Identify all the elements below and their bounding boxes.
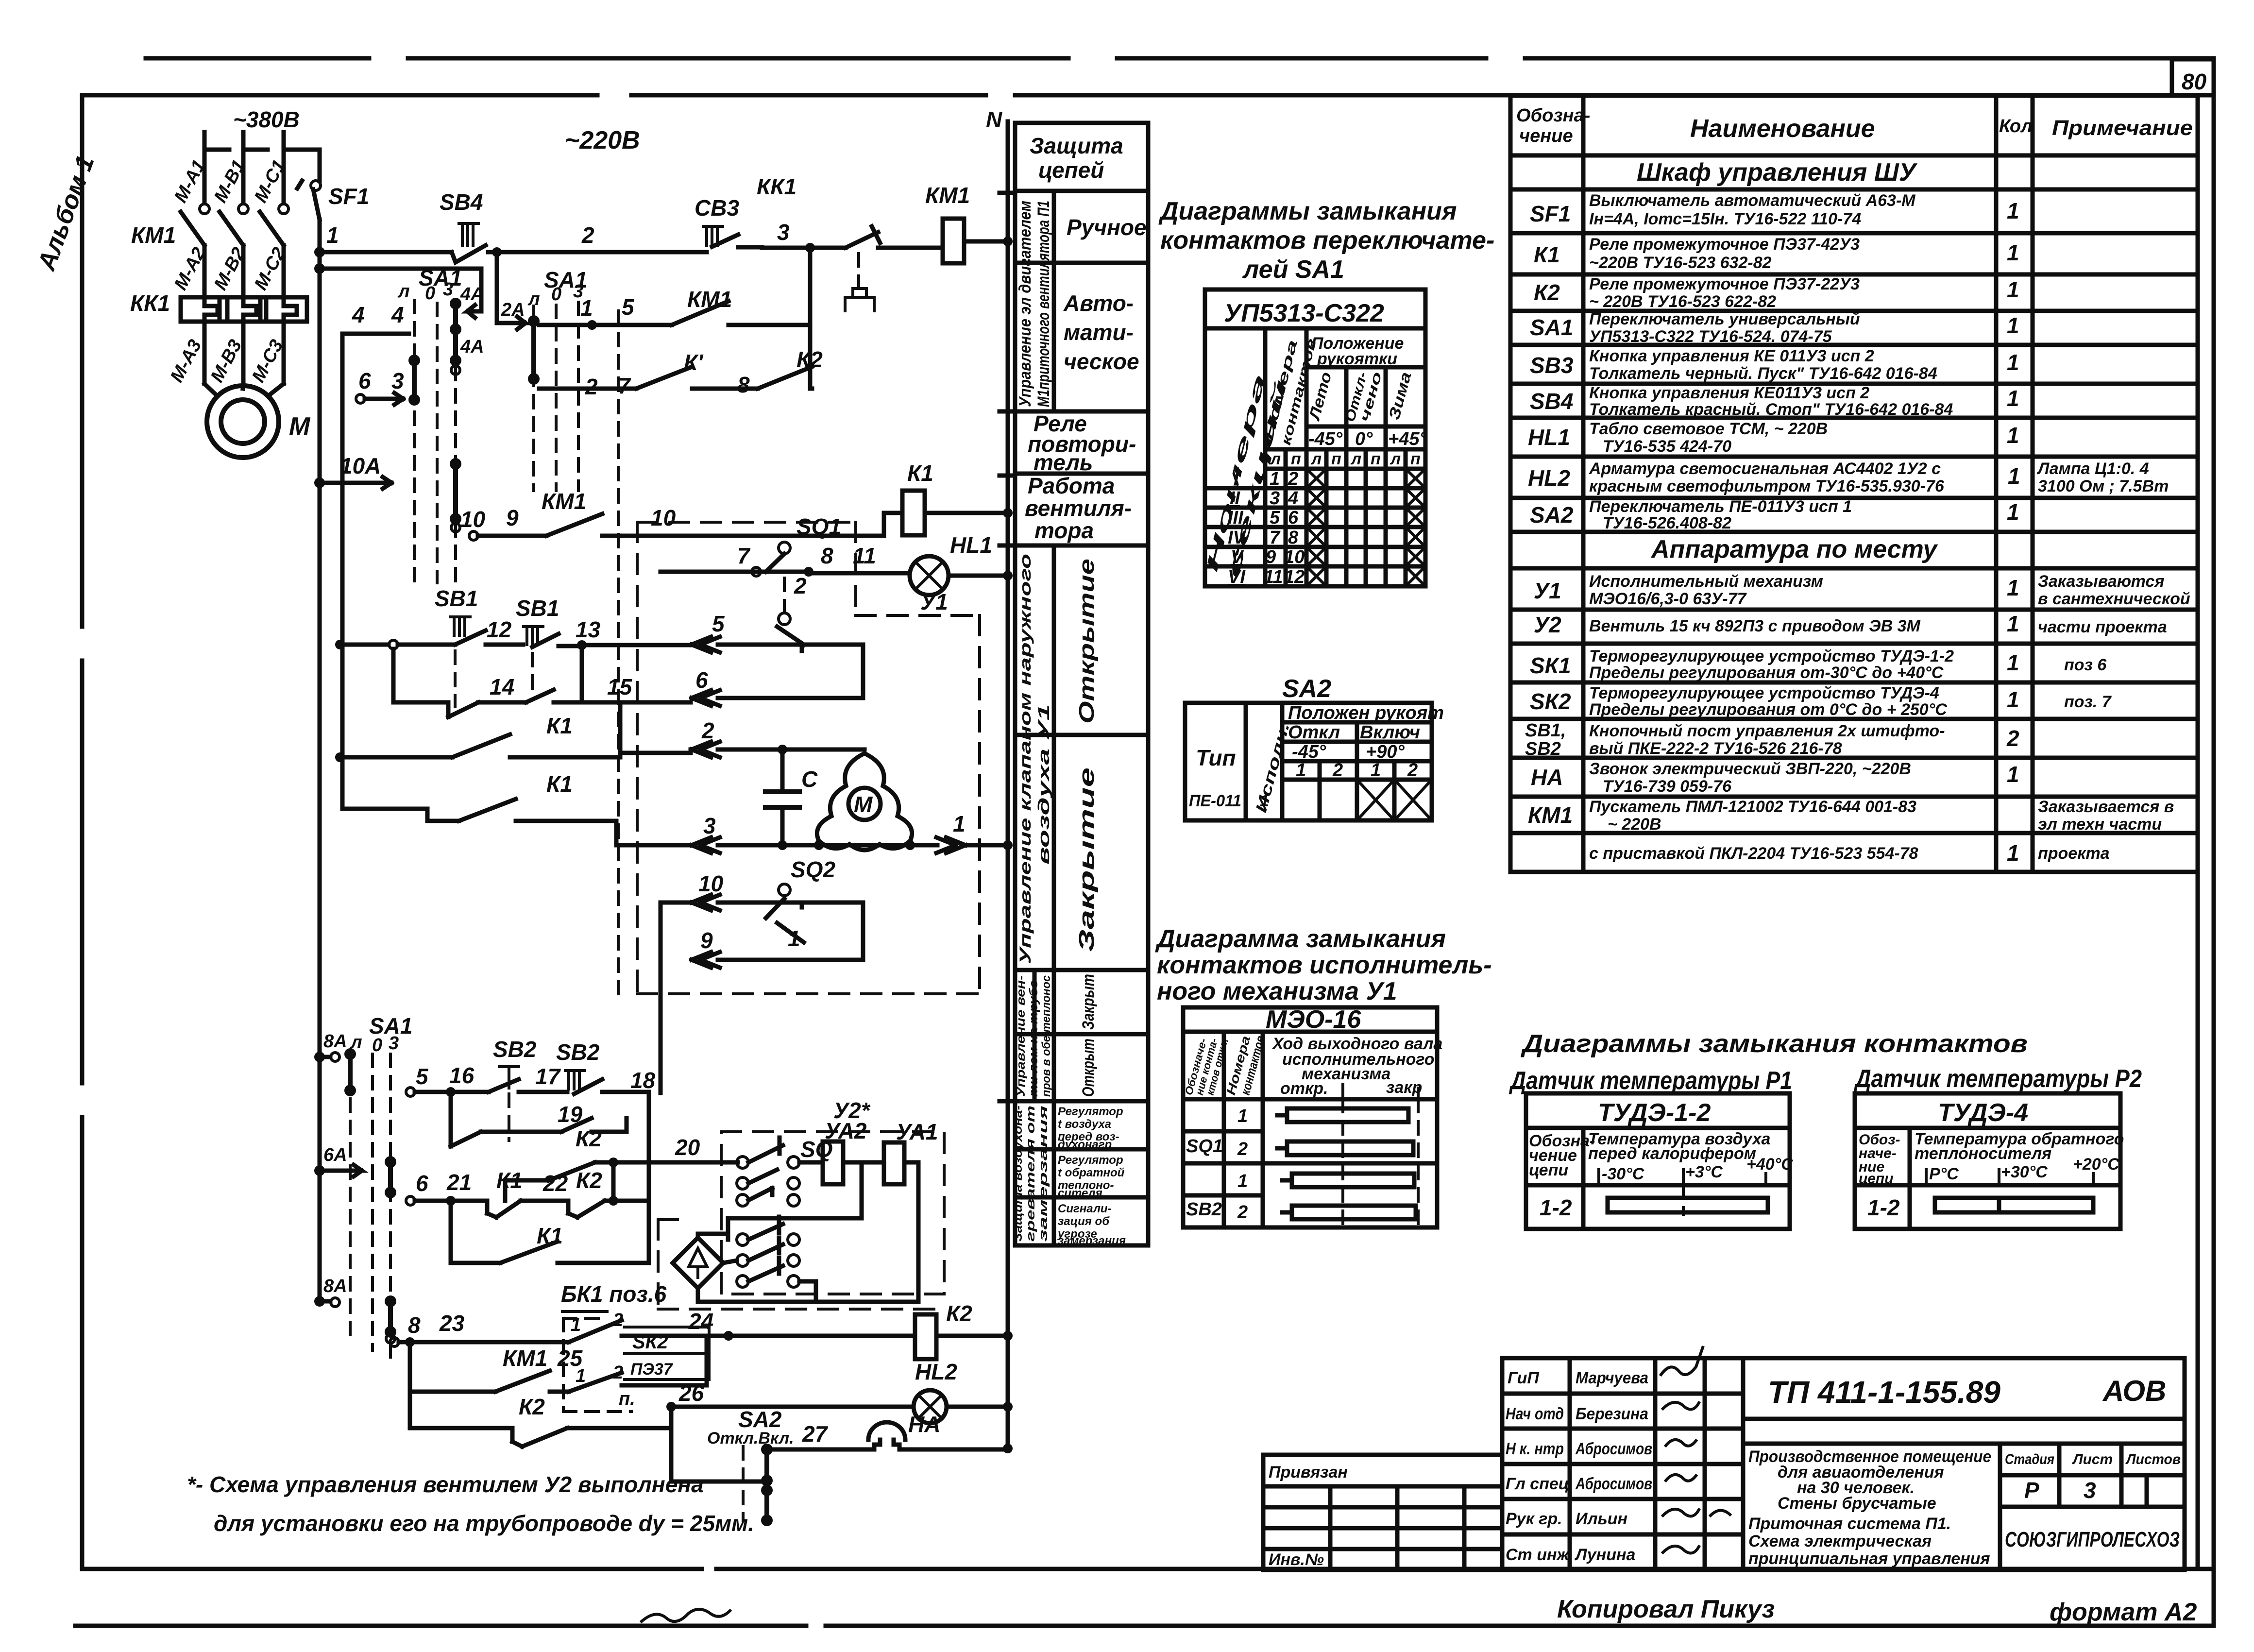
parts row SK2 — [1530, 684, 2112, 719]
svg-text:красным светофильтром ТУ16-535: красным светофильтром ТУ16-535.930-76 — [1589, 477, 1945, 495]
switch SA2 branch — [671, 1407, 829, 1526]
wire row 16 SB2 — [406, 1063, 541, 1097]
svg-text:К1: К1 — [496, 1168, 523, 1193]
svg-text:л: л — [1350, 450, 1361, 468]
svg-text:Пускатель ПМЛ-121002 ТУ16-644: Пускатель ПМЛ-121002 ТУ16-644 001-83 — [1589, 798, 1916, 816]
svg-text:ТУ16-535 424-70: ТУ16-535 424-70 — [1603, 437, 1731, 456]
svg-text:л: л — [1310, 450, 1322, 468]
svg-text:1: 1 — [953, 811, 966, 836]
svg-text:замерзания: замерзания — [1058, 1234, 1126, 1247]
svg-text:Iн=4А, Iотс=15Iн. ТУ16-522 1: Iн=4А, Iотс=15Iн. ТУ16-522 110-74 — [1589, 210, 1861, 228]
node ~380V label — [233, 107, 300, 132]
svg-text:2: 2 — [1407, 760, 1418, 781]
thermal relay KK1 heaters — [130, 290, 307, 322]
switch SA1 group3 labels — [350, 1013, 412, 1056]
svg-text:10: 10 — [651, 505, 676, 530]
svg-text:-45°: -45° — [1292, 742, 1326, 762]
parts row HA — [1531, 760, 2019, 796]
svg-text:Закрыт: Закрыт — [1079, 974, 1098, 1030]
svg-text:15: 15 — [607, 674, 633, 699]
parts row SB4 — [1530, 384, 2019, 419]
dashed lower return boundary — [658, 1220, 944, 1309]
switch SA1 group1 dashed columns — [414, 300, 456, 583]
svg-text:Гл спец: Гл спец — [1506, 1475, 1569, 1493]
svg-text:откр.: откр. — [1280, 1079, 1328, 1098]
svg-text:Табло световое ТСМ, ~ 220В: Табло световое ТСМ, ~ 220В — [1589, 420, 1828, 438]
svg-text:1: 1 — [2007, 611, 2019, 636]
svg-text:SB4: SB4 — [440, 189, 483, 215]
svg-text:23: 23 — [439, 1311, 465, 1336]
valve U2 dashed box — [721, 1098, 944, 1294]
svg-text:3: 3 — [391, 368, 404, 393]
svg-text:HL2: HL2 — [1528, 465, 1570, 491]
svg-text:Ст инж: Ст инж — [1506, 1546, 1570, 1564]
svg-text:3: 3 — [2084, 1478, 2096, 1503]
svg-text:лей SА1: лей SА1 — [1242, 255, 1344, 284]
svg-text:SВ1,: SВ1, — [1525, 720, 1566, 741]
svg-text:КК1: КК1 — [130, 290, 170, 316]
svg-text:6: 6 — [416, 1171, 428, 1196]
capacitor C — [765, 745, 818, 850]
actuator U1 dashed box — [637, 522, 980, 994]
svg-text:Лунина: Лунина — [1574, 1546, 1635, 1564]
svg-text:ТП 411-1-155.89: ТП 411-1-155.89 — [1768, 1375, 2000, 1410]
svg-text:22: 22 — [542, 1171, 568, 1196]
table UP5313 X marks — [1306, 469, 1425, 586]
svg-text:Датчик температуры Р1: Датчик температуры Р1 — [1509, 1067, 1792, 1095]
contactor coil KM1 — [915, 183, 1008, 263]
sheet number box 80 — [2172, 59, 2214, 95]
parts row U1 — [1534, 572, 2190, 608]
svg-text:л: л — [397, 281, 410, 302]
parts row SF1 — [1530, 191, 2019, 228]
svg-text:Р: Р — [2024, 1478, 2039, 1503]
svg-text:12: 12 — [1284, 567, 1305, 587]
svg-text:1-2: 1-2 — [1867, 1195, 1900, 1220]
switch SA1 group1 labels — [397, 265, 462, 304]
svg-text:Пределы регулирования от-30°С: Пределы регулирования от-30°С до +40°С — [1589, 664, 1944, 682]
svg-text:цепи: цепи — [1859, 1171, 1894, 1187]
breaker SF1 — [295, 150, 369, 252]
svg-text:Нач отд: Нач отд — [1506, 1405, 1564, 1423]
svg-text:5: 5 — [712, 611, 725, 636]
bottom caption copied — [642, 1595, 1775, 1623]
svg-text:Терморегулирующее устройство Т: Терморегулирующее устройство ТУДЭ-1-2 — [1589, 647, 1954, 665]
svg-text:~380В: ~380В — [233, 107, 300, 132]
svg-text:п: п — [1410, 450, 1421, 468]
svg-text:мати-: мати- — [1064, 320, 1134, 345]
svg-text:14: 14 — [490, 674, 514, 699]
bus N connection ticks — [1000, 193, 1015, 1101]
button SB2 first — [493, 1037, 537, 1088]
svg-text:КМ1: КМ1 — [925, 183, 970, 208]
svg-text:1: 1 — [1237, 1171, 1248, 1192]
svg-text:2: 2 — [1237, 1139, 1248, 1159]
svg-text:ТУ16-526.408-82: ТУ16-526.408-82 — [1603, 514, 1731, 532]
svg-text:19: 19 — [558, 1102, 583, 1127]
svg-text:Кнопка управления КЕ011У3 и: Кнопка управления КЕ011У3 исп 2 — [1589, 384, 1869, 402]
table TUDE-1-2 — [1526, 1093, 1793, 1229]
svg-text:л: л — [1390, 450, 1401, 468]
svg-text:SQ1: SQ1 — [797, 514, 841, 539]
svg-text:Лампа Ц1:0. 4: Лампа Ц1:0. 4 — [2036, 460, 2149, 478]
switch SA1 group3 dashed columns — [350, 1054, 390, 1359]
svg-text:Защита: Защита — [1030, 133, 1123, 158]
svg-text:10: 10 — [460, 507, 486, 532]
wire row B — [320, 269, 481, 311]
wire 4 link to SA1 — [342, 302, 409, 334]
svg-text:8: 8 — [1288, 528, 1299, 548]
solenoid coil UA2 — [799, 1118, 867, 1184]
svg-text:6А: 6А — [323, 1145, 347, 1165]
svg-text:К1: К1 — [546, 713, 573, 738]
svg-text:НА: НА — [908, 1412, 940, 1437]
svg-text:2: 2 — [1237, 1202, 1248, 1223]
svg-text:Защита воздухона-: Защита воздухона- — [1012, 1106, 1025, 1242]
svg-text:1: 1 — [1270, 469, 1280, 489]
svg-text:Привязан: Привязан — [1269, 1463, 1348, 1482]
svg-text:Кнопка управления КЕ 011У3: Кнопка управления КЕ 011У3 исп 2 — [1589, 347, 1874, 365]
svg-text:SF1: SF1 — [1530, 201, 1571, 226]
svg-text:SQ1: SQ1 — [1186, 1136, 1223, 1157]
svg-text:К2: К2 — [576, 1168, 602, 1193]
svg-text:4: 4 — [391, 302, 404, 327]
parts row SB3 — [1530, 347, 2019, 383]
parts row HL2 — [1528, 460, 2169, 495]
svg-text:Кол: Кол — [1999, 116, 2033, 136]
wire right vertical joining rows A C D — [805, 243, 815, 389]
svg-text:духонагр: духонагр — [1058, 1138, 1112, 1151]
svg-text:t воздуха: t воздуха — [1058, 1118, 1111, 1131]
svg-text:КМ1: КМ1 — [503, 1345, 547, 1371]
svg-text:Лист: Лист — [2072, 1451, 2113, 1467]
svg-text:вый ПКЕ-222-2 ТУ16-526 2: вый ПКЕ-222-2 ТУ16-526 216-78 — [1589, 739, 1842, 758]
svg-text:Работа: Работа — [1028, 473, 1115, 498]
svg-text:гревателя от: гревателя от — [1024, 1106, 1037, 1242]
svg-text:Откл: Откл — [1288, 722, 1340, 743]
svg-text:1: 1 — [2007, 687, 2019, 712]
svg-text:1: 1 — [2007, 575, 2019, 600]
svg-text:Схема электрическая: Схема электрическая — [1748, 1532, 1932, 1550]
svg-text:SК1: SК1 — [1530, 653, 1571, 678]
svg-text:SВ2: SВ2 — [556, 1039, 600, 1065]
svg-text:Стены брусчатые: Стены брусчатые — [1778, 1494, 1936, 1513]
svg-text:2: 2 — [2006, 726, 2019, 751]
svg-text:HL2: HL2 — [915, 1359, 957, 1384]
svg-text:Марчуева: Марчуева — [1576, 1369, 1648, 1387]
svg-text:К1: К1 — [907, 460, 933, 486]
contactor KM1 main contacts — [131, 204, 288, 248]
svg-text:Диаграмма замыкания: Диаграмма замыкания — [1155, 925, 1446, 953]
svg-text:У1: У1 — [920, 589, 948, 614]
svg-text:2А: 2А — [501, 300, 525, 320]
button SB4 stop — [440, 189, 497, 262]
svg-text:воздуха У1: воздуха У1 — [1035, 704, 1052, 865]
table MEO-16 outline — [1183, 1005, 1443, 1227]
svg-text:N: N — [986, 107, 1002, 132]
svg-text:Авто-: Авто- — [1063, 290, 1134, 316]
svg-text:10: 10 — [698, 871, 724, 896]
svg-text:КМ1: КМ1 — [542, 489, 586, 514]
switch SA1 group2 dashed columns — [534, 302, 618, 994]
switch SA1 contact bar col3 upper — [450, 458, 461, 532]
svg-text:Включ: Включ — [1360, 722, 1420, 743]
parts row HL1 — [1528, 420, 2019, 456]
svg-text:7: 7 — [618, 373, 631, 398]
strip box regulator air — [1058, 1105, 1123, 1151]
wire row 21 — [406, 1168, 649, 1217]
svg-text:п.: п. — [619, 1389, 635, 1409]
svg-text:21: 21 — [446, 1170, 472, 1195]
svg-text:Толкатель красный. Стоп" ТУ16-: Толкатель красный. Стоп" ТУ16-642 016-84 — [1589, 400, 1953, 419]
svg-text:-45°: -45° — [1308, 429, 1343, 449]
parts row U2 — [1534, 611, 2167, 637]
bell HA — [767, 1412, 1013, 1453]
svg-text:8: 8 — [821, 543, 833, 568]
frame right border — [2212, 58, 2216, 1626]
strip label freeze protection rotated — [1012, 1106, 1050, 1242]
heading diagrams SA1 — [1158, 197, 1494, 284]
svg-text:Обозна-: Обозна- — [1516, 105, 1590, 126]
svg-text:Наименование: Наименование — [1690, 115, 1875, 143]
svg-text:HL1: HL1 — [950, 532, 992, 558]
svg-text:ТУДЭ-4: ТУДЭ-4 — [1938, 1099, 2028, 1127]
wire row 13 to U1 row 5 — [577, 640, 691, 650]
contact BK1 pos b — [561, 1281, 729, 1342]
strip box regulator return water — [1058, 1154, 1125, 1200]
svg-text:Положен рукоят: Положен рукоят — [1288, 703, 1444, 723]
frame left border — [80, 95, 85, 1569]
svg-text:КМ1: КМ1 — [1528, 802, 1573, 828]
table TUDE-4 — [1855, 1093, 2124, 1229]
svg-text:5: 5 — [416, 1064, 429, 1089]
album label rotated — [32, 152, 100, 275]
wire U1 row 2 — [692, 718, 864, 757]
limit switch SQ1 — [766, 514, 841, 645]
svg-text:t обратной: t обратной — [1058, 1166, 1125, 1179]
svg-text:SВ1: SВ1 — [516, 596, 559, 621]
svg-text:SF1: SF1 — [328, 184, 369, 209]
svg-text:~220В: ~220В — [565, 126, 640, 154]
wire 8A tap upper — [314, 1031, 356, 1096]
svg-text:8А: 8А — [323, 1276, 347, 1296]
strip label protect circuits — [1030, 133, 1123, 183]
svg-text:ПЭ37: ПЭ37 — [630, 1360, 674, 1379]
wire U1 row 5 — [692, 611, 802, 652]
solenoid coil UA1 — [843, 1119, 938, 1302]
svg-text:II: II — [1230, 488, 1241, 509]
svg-text:Закрытие: Закрытие — [1075, 767, 1099, 952]
parts row SA1 — [1530, 310, 2019, 346]
parts row K2 — [1534, 275, 2019, 311]
strip label motor control rotated — [1016, 201, 1053, 407]
wire row 24 to K2 coil — [688, 1309, 915, 1341]
svg-text:1: 1 — [2007, 650, 2019, 675]
svg-text:16: 16 — [449, 1063, 475, 1088]
svg-text:17: 17 — [535, 1064, 561, 1089]
svg-text:К': К' — [684, 350, 704, 375]
svg-text:+45°: +45° — [1388, 429, 1427, 449]
wire row 20 — [609, 1135, 738, 1167]
svg-text:3: 3 — [1270, 488, 1280, 509]
svg-text:Абросимов: Абросимов — [1575, 1440, 1652, 1458]
svg-text:принципиальная управления: принципиальная управления — [1748, 1550, 1990, 1568]
svg-text:У1: У1 — [1534, 578, 1561, 603]
svg-text:Регулятор: Регулятор — [1058, 1154, 1123, 1167]
svg-text:18: 18 — [630, 1068, 656, 1093]
svg-text:4А: 4А — [460, 337, 484, 357]
svg-text:Регулятор: Регулятор — [1058, 1105, 1123, 1118]
svg-text:Листов: Листов — [2125, 1451, 2181, 1467]
wire K2 bypass row 26 — [410, 1392, 671, 1447]
svg-text:10А: 10А — [340, 453, 381, 478]
wire U1 row 6 — [692, 645, 863, 706]
svg-text:Датчик температуры Р2: Датчик температуры Р2 — [1854, 1065, 2142, 1093]
svg-text:*- Схема управления вентилем: *- Схема управления вентилем У2 выполнен… — [187, 1472, 704, 1497]
svg-text:3: 3 — [703, 813, 716, 838]
table UP5313 rows data — [1228, 469, 1305, 587]
svg-text:1: 1 — [788, 926, 800, 951]
svg-text:1: 1 — [2007, 240, 2019, 265]
bus N vertical — [1006, 121, 1010, 1448]
lamp HL2 — [914, 1359, 1013, 1423]
svg-text:К2: К2 — [519, 1394, 545, 1419]
svg-text:вентиля-: вентиля- — [1025, 495, 1132, 521]
wire U1 row 10 — [692, 871, 802, 910]
svg-text:Вентиль 15 кч 892П3 с приво: Вентиль 15 кч 892П3 с приводом ЭВ 3М — [1589, 617, 1920, 635]
svg-text:1: 1 — [1371, 760, 1381, 781]
frame bottom page edge line — [75, 1624, 2214, 1628]
svg-text:Выключатель автоматический А: Выключатель автоматический А63-М — [1589, 191, 1915, 210]
parts row KM1 — [1528, 798, 2174, 834]
svg-text:2: 2 — [1288, 469, 1298, 489]
strip label manual — [1067, 215, 1147, 240]
svg-text:8: 8 — [408, 1312, 421, 1338]
svg-text:0: 0 — [551, 284, 561, 305]
svg-text:К2: К2 — [1534, 280, 1560, 305]
parts row SB1 SB2 — [1525, 720, 2019, 759]
svg-text:~220В ТУ16-523 632-82: ~220В ТУ16-523 632-82 — [1589, 254, 1772, 272]
svg-text:8А: 8А — [323, 1031, 347, 1052]
svg-text:6: 6 — [695, 667, 708, 693]
svg-text:ПЕ-011: ПЕ-011 — [1189, 792, 1241, 810]
limit switch SQ2 — [766, 857, 835, 951]
svg-text:1: 1 — [2007, 350, 2019, 375]
svg-text:Откл.Вкл.: Откл.Вкл. — [707, 1429, 794, 1448]
svg-text:1: 1 — [2007, 840, 2019, 866]
svg-text:Ручное: Ручное — [1067, 215, 1147, 240]
svg-text:ного механизма У1: ного механизма У1 — [1157, 977, 1397, 1005]
svg-text:7: 7 — [737, 543, 751, 568]
svg-text:+3°С: +3°С — [1685, 1163, 1723, 1181]
svg-text:5: 5 — [622, 294, 635, 320]
svg-text:МЭО16/6,3-0 63У-77: МЭО16/6,3-0 63У-77 — [1589, 590, 1747, 608]
svg-text:ГиП: ГиП — [1508, 1369, 1540, 1387]
title block attachment table — [1263, 1455, 1502, 1570]
svg-text:М: М — [289, 412, 311, 441]
svg-text:2: 2 — [794, 573, 807, 598]
svg-text:1: 1 — [1237, 1106, 1248, 1126]
svg-text:+20°С: +20°С — [2073, 1155, 2119, 1174]
svg-text:Примечание: Примечание — [2052, 116, 2193, 140]
svg-text:контактов переключате-: контактов переключате- — [1160, 226, 1494, 255]
svg-text:3: 3 — [443, 279, 453, 300]
wire row A to SB4 — [320, 250, 452, 255]
svg-text:SВ2: SВ2 — [493, 1037, 537, 1062]
svg-text:SВ2: SВ2 — [1186, 1199, 1222, 1220]
svg-text:HL1: HL1 — [1528, 425, 1570, 450]
svg-text:Управление вен-: Управление вен- — [1015, 975, 1028, 1097]
svg-text:1: 1 — [2007, 313, 2019, 338]
label N — [986, 107, 1002, 132]
svg-text:поз 6: поз 6 — [2064, 656, 2107, 674]
svg-text:2: 2 — [585, 374, 598, 399]
table SA2 heading — [1282, 675, 1331, 703]
svg-text:теплоносителя: теплоносителя — [1915, 1144, 2051, 1163]
switch SQ group2 — [737, 1217, 799, 1287]
wire U1 rows 10 9 external link — [661, 903, 691, 1093]
svg-text:Р°С: Р°С — [1929, 1165, 1959, 1183]
svg-text:4А: 4А — [460, 284, 484, 305]
svg-text:V: V — [1231, 547, 1244, 567]
svg-text:8: 8 — [737, 372, 750, 397]
svg-text:Сигнали-: Сигнали- — [1058, 1202, 1112, 1215]
svg-text:КМ1: КМ1 — [131, 222, 176, 248]
wire row 26 to HL2 — [666, 1380, 914, 1428]
svg-text:1: 1 — [2007, 762, 2019, 787]
svg-text:26: 26 — [678, 1380, 704, 1406]
svg-text:1: 1 — [2007, 386, 2019, 411]
svg-text:2: 2 — [701, 718, 714, 743]
title block signatures table — [1502, 1358, 1743, 1570]
svg-text:с приставкой ПКЛ-2204 ТУ16-5: с приставкой ПКЛ-2204 ТУ16-523 554-78 — [1589, 844, 1918, 863]
svg-text:поз. 7: поз. 7 — [2064, 693, 2112, 711]
svg-text:Тип: Тип — [1196, 745, 1236, 770]
svg-text:1: 1 — [2007, 277, 2019, 302]
svg-text:М: М — [854, 792, 873, 817]
diode bridge — [673, 1234, 918, 1302]
bottom caption format — [2050, 1598, 2197, 1626]
svg-text:зация об: зация об — [1058, 1215, 1110, 1228]
svg-text:У2: У2 — [1534, 612, 1561, 637]
wire phase labels М-А2 М-В2 М-С2 — [170, 244, 290, 293]
button SB1 second — [516, 596, 601, 647]
svg-text:Кнопочный пост управления 2х ш: Кнопочный пост управления 2х штифто- — [1589, 722, 1945, 740]
thermal contact KK1 break — [757, 174, 915, 311]
frame schematic top border — [82, 93, 2198, 98]
svg-text:6: 6 — [1288, 508, 1299, 528]
svg-text:Открыт: Открыт — [1079, 1039, 1098, 1097]
svg-text:ческое: ческое — [1064, 349, 1139, 374]
svg-text:УП5313-С322 ТУ16-524. 074: УП5313-С322 ТУ16-524. 074-75 — [1589, 327, 1832, 346]
svg-text:VI: VI — [1228, 567, 1246, 587]
wire K2 bypass to row 20 — [505, 1126, 613, 1201]
wire phase labels М-А3 М-В3 М-С3 — [167, 336, 288, 386]
motor M1 — [204, 384, 311, 458]
parts row KM1 attachment — [1589, 840, 2110, 866]
svg-text:СВ3: СВ3 — [695, 195, 739, 221]
wire SB1 bypass row 14-15 — [393, 645, 691, 717]
svg-text:+90°: +90° — [1366, 742, 1405, 762]
svg-text:10: 10 — [1284, 547, 1305, 567]
strip label relay repeater — [1028, 411, 1136, 475]
svg-text:Рук гр.: Рук гр. — [1506, 1510, 1562, 1528]
svg-text:9: 9 — [506, 505, 519, 530]
svg-text:SА1: SА1 — [1530, 315, 1573, 340]
strip label fan work — [1025, 473, 1132, 543]
svg-text:Реле промежуточное ПЭ37-22У3: Реле промежуточное ПЭ37-22У3 — [1589, 275, 1860, 293]
wire 6A tap — [314, 1145, 396, 1198]
